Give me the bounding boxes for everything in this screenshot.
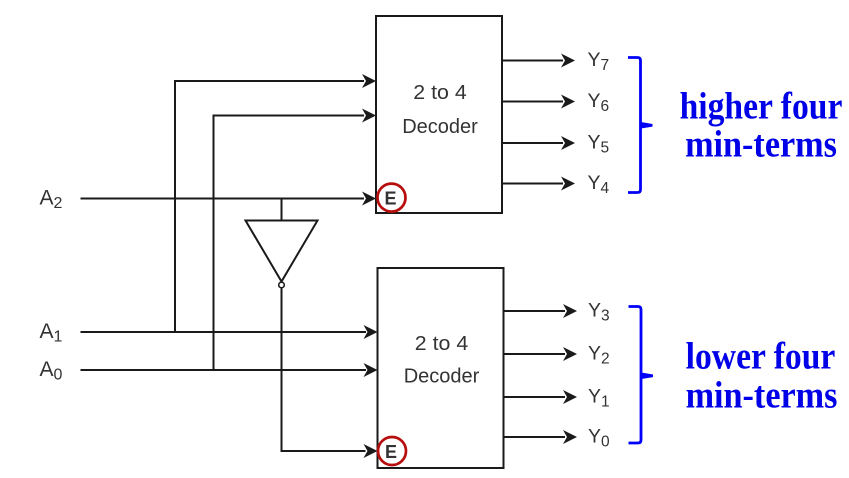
svg-text:Y6: Y6 [588, 90, 610, 115]
svg-text:Y2: Y2 [588, 342, 610, 367]
svg-text:min-terms: min-terms [686, 374, 838, 416]
svg-text:Y4: Y4 [588, 172, 610, 197]
svg-text:A1: A1 [40, 320, 63, 346]
svg-text:E: E [384, 188, 396, 208]
svg-text:Decoder: Decoder [402, 116, 478, 138]
svg-text:2 to 4: 2 to 4 [413, 82, 467, 104]
svg-text:min-terms: min-terms [685, 123, 837, 165]
svg-text:Y3: Y3 [588, 299, 610, 324]
svg-text:Y1: Y1 [588, 385, 610, 410]
svg-text:Y5: Y5 [588, 131, 610, 156]
svg-text:E: E [385, 442, 397, 462]
svg-text:Y7: Y7 [588, 49, 610, 74]
svg-text:A2: A2 [40, 187, 63, 213]
svg-text:lower four: lower four [686, 335, 836, 377]
svg-text:Y0: Y0 [588, 425, 610, 450]
svg-text:2 to 4: 2 to 4 [415, 333, 469, 355]
svg-text:A0: A0 [40, 358, 63, 384]
svg-text:Decoder: Decoder [404, 366, 480, 388]
svg-text:higher four: higher four [680, 85, 843, 127]
